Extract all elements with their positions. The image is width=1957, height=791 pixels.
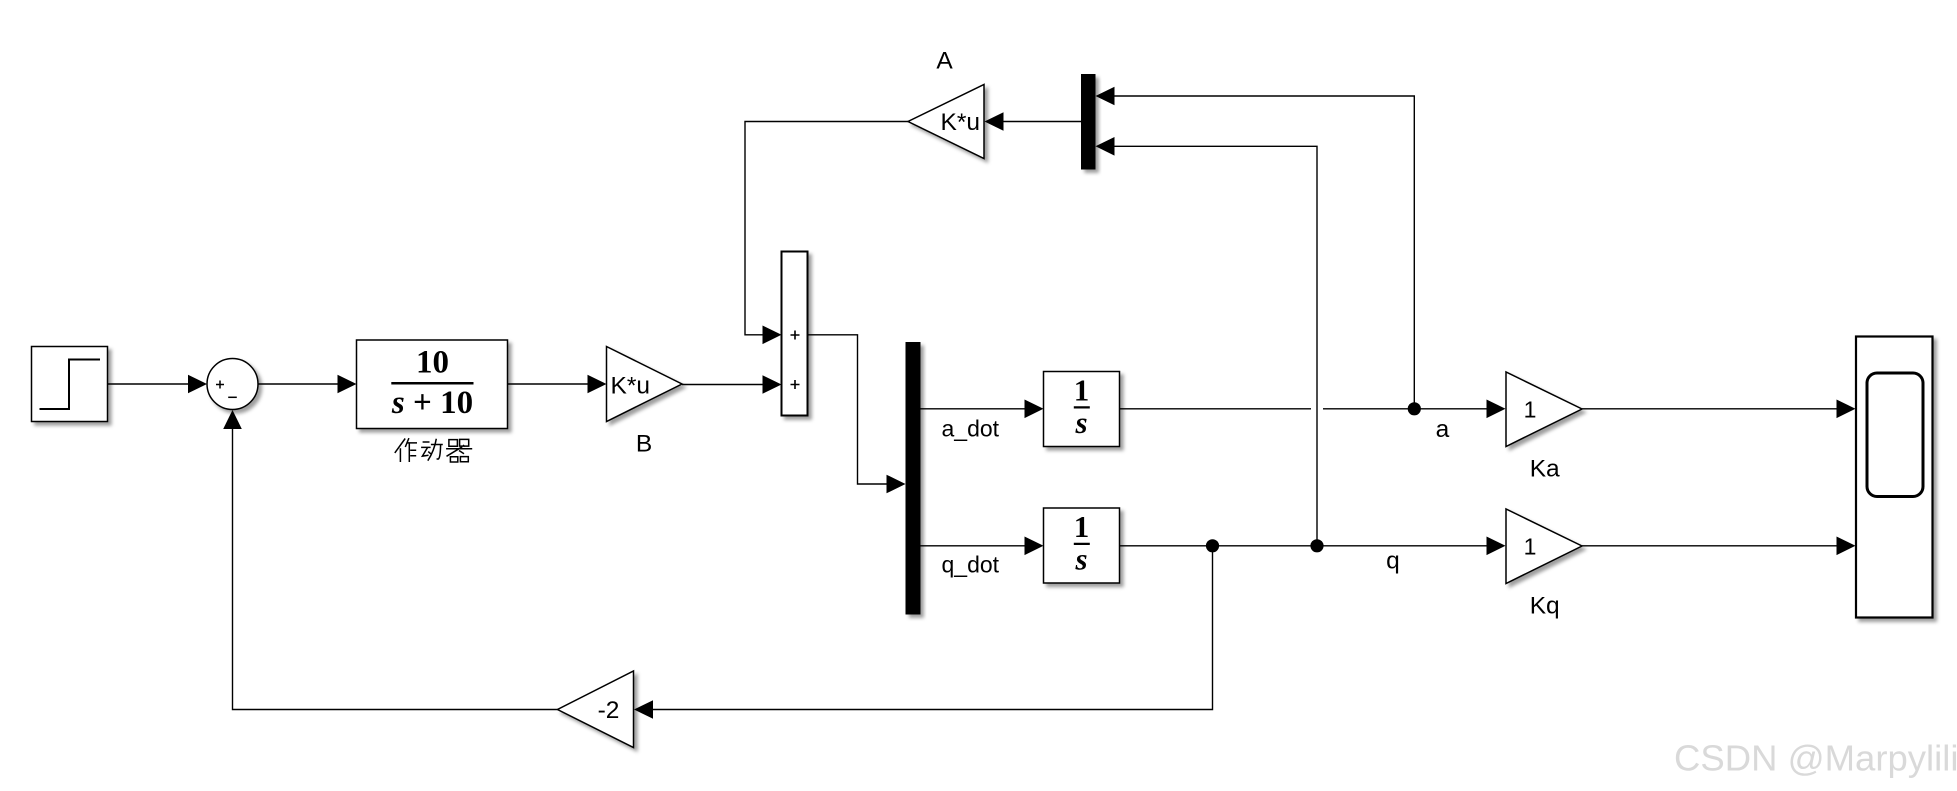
arrowhead into sum2 upper input	[763, 326, 782, 345]
svg-text:1: 1	[1074, 509, 1090, 544]
wire a_dot to integrator1	[921, 408, 1030, 410]
fraction bar	[391, 382, 473, 385]
plus sign in sum	[216, 381, 224, 389]
svg-text:A: A	[936, 48, 953, 75]
wire mux to gain A	[999, 121, 1081, 123]
svg-text:q: q	[1386, 548, 1400, 575]
svg-text:s + 10: s + 10	[391, 385, 473, 421]
svg-text:1: 1	[1524, 534, 1537, 560]
svg-text:B: B	[636, 431, 652, 458]
char zuo	[395, 438, 417, 462]
wire a node up to mux top input	[1110, 96, 1414, 409]
step source block	[32, 347, 108, 422]
gain Kq triangle	[1506, 509, 1582, 584]
wire transfer fn to gain B	[508, 383, 593, 385]
arrowhead into scope input 2	[1837, 537, 1856, 556]
svg-text:K*u: K*u	[611, 372, 651, 399]
wire q node up to mux bottom input	[1110, 146, 1317, 546]
scope block	[1856, 337, 1933, 618]
minus sign in sum	[228, 396, 237, 398]
plus sign lower port	[791, 380, 800, 389]
arrowhead into scope input 1	[1837, 400, 1856, 419]
svg-text:s: s	[1074, 405, 1087, 440]
arrowhead into sum	[188, 375, 207, 394]
arrowhead into Ka	[1487, 400, 1506, 419]
wire sum to transfer fn	[258, 383, 342, 385]
svg-text:s: s	[1074, 542, 1087, 577]
wire sum2 output to demux	[808, 335, 894, 484]
mux bar (thick, top)	[1081, 74, 1096, 170]
arrowhead into Kq	[1487, 537, 1506, 556]
wire gain B to sum2	[682, 384, 767, 386]
wire q feedback down to -2 gain	[648, 546, 1213, 710]
svg-text:Ka: Ka	[1530, 456, 1560, 483]
svg-text:q_dot: q_dot	[942, 552, 1000, 578]
integrator 2 block 1/s	[1044, 508, 1120, 583]
label actuator (CJK drawn as strokes)	[395, 438, 472, 462]
arrowhead into gain A	[985, 112, 1004, 131]
wire Ka to scope	[1582, 408, 1841, 410]
arrowhead into -2 gain	[634, 700, 653, 719]
plus sign upper port	[791, 331, 800, 340]
sum junction circle	[207, 359, 258, 410]
arrowhead into transfer fn	[338, 375, 357, 394]
arrowhead into mux input 2	[1096, 137, 1115, 156]
wire Kq to scope	[1582, 545, 1841, 547]
arrowhead into sum2 lower input	[763, 375, 782, 394]
svg-text:K*u: K*u	[940, 109, 980, 136]
sum2 rectangular block	[782, 252, 808, 416]
node q junction dot (to mux)	[1310, 539, 1323, 552]
wire -2 output to sum bottom	[233, 424, 558, 710]
gain B triangle	[607, 347, 683, 422]
wire q line integrator2 to Kq	[1120, 545, 1492, 547]
arrowhead into integrator2	[1025, 537, 1044, 556]
node q junction dot (feedback)	[1206, 539, 1219, 552]
wire q_dot to integrator2	[921, 545, 1030, 547]
svg-text:-2: -2	[598, 697, 620, 724]
arrowhead into gain B	[588, 375, 607, 394]
step waveform glyph	[40, 360, 101, 410]
arrowhead into mux input 1	[1096, 87, 1115, 106]
gain Ka triangle	[1506, 372, 1582, 447]
node a junction dot	[1408, 402, 1421, 415]
scope screen rounded rect	[1867, 373, 1923, 497]
svg-text:a: a	[1436, 416, 1450, 443]
char qi	[446, 439, 472, 462]
transfer function block 10/(s+10)	[357, 340, 508, 429]
char dong	[421, 439, 443, 461]
svg-text:a_dot: a_dot	[942, 416, 1000, 442]
arrowhead into demux	[887, 475, 906, 494]
demux bar (thick)	[906, 342, 921, 615]
wire step to sum	[108, 383, 193, 385]
svg-text:CSDN @Marpylili: CSDN @Marpylili	[1674, 738, 1957, 779]
gain A triangle (points left)	[908, 85, 984, 159]
gain -2 triangle (points left)	[558, 671, 634, 748]
wire gain A output to sum2 upper input	[745, 122, 908, 335]
wire a line integrator1 to Ka (with crossing gap)	[1120, 408, 1312, 410]
svg-text:10: 10	[416, 345, 449, 381]
integrator 1 block 1/s	[1044, 372, 1120, 447]
svg-text:1: 1	[1074, 372, 1090, 407]
svg-text:1: 1	[1524, 397, 1537, 423]
arrowhead up into sum	[223, 410, 242, 429]
svg-text:Kq: Kq	[1530, 593, 1560, 620]
arrowhead into integrator1	[1025, 400, 1044, 419]
